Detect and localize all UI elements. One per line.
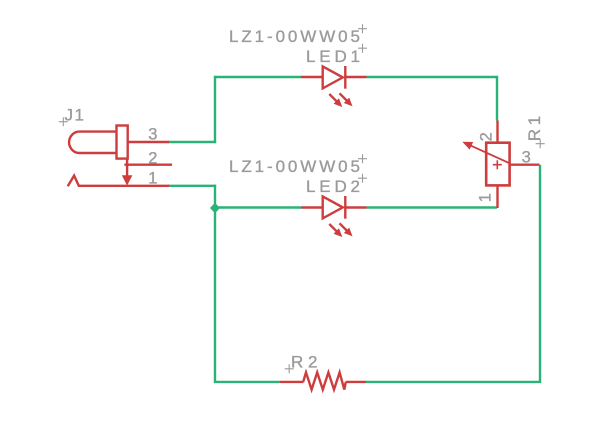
wire net N$3 right vertical to R1 pin 3 — [539, 165, 541, 383]
LED2 name origin cross — [358, 174, 367, 183]
LED2 anode lead — [301, 206, 323, 208]
wire net N$2 right of LED2 to R1 pin 1 — [367, 206, 498, 208]
svg-text:1: 1 — [476, 193, 494, 202]
trimpot R1 pin 2 stub — [496, 121, 498, 143]
wire net GND left of LED2 — [215, 206, 301, 208]
connector J1 pin 3 lead — [128, 141, 169, 143]
wire net GND short vertical to junction — [214, 185, 216, 208]
connector J1 origin cross — [59, 117, 68, 126]
LED1 emission arrow a — [329, 94, 342, 107]
wire net GND pin1 horizontal — [168, 185, 216, 187]
connector J1 barrel jack body — [69, 126, 128, 159]
LED1 anode lead — [301, 76, 323, 78]
wire net N$1 pin3 horizontal — [168, 141, 216, 143]
trimpot R1 pin 1 stub — [496, 185, 498, 208]
trimpot R1 center plus — [493, 160, 502, 169]
svg-text:1: 1 — [148, 170, 157, 188]
LED2 cathode bar — [344, 196, 346, 219]
trimpot R1 origin cross — [536, 139, 545, 148]
LED2 emission arrow a — [329, 224, 342, 237]
trimpot R1 wiper arrow — [462, 142, 510, 164]
LED1 name origin cross — [358, 44, 367, 53]
LED2 cathode lead — [345, 206, 366, 208]
LED1 value origin cross — [358, 24, 367, 33]
wire net N$1 top rail left of LED1 — [214, 76, 301, 78]
svg-text:LZ1-00WW05: LZ1-00WW05 — [229, 27, 360, 46]
wire net N$1 right vertical to R1 pin 2 — [496, 76, 498, 121]
resistor R2 origin cross — [285, 364, 294, 373]
wire net GND long left vertical — [214, 208, 216, 384]
LED2 triangle — [323, 196, 343, 218]
svg-text:2: 2 — [148, 150, 157, 168]
LED2 emission arrow b — [340, 223, 353, 236]
wire net N$1 top rail right of LED1 — [367, 76, 499, 78]
connector J1 pin 1 sleeve lead with chevron — [68, 176, 169, 187]
LED1 cathode bar — [344, 66, 346, 89]
trimpot R1 body rectangle — [486, 143, 509, 186]
LED1 cathode lead — [345, 76, 366, 78]
wire net N$3 bottom rail right of R2 — [366, 381, 541, 383]
LED2 value origin cross — [358, 154, 367, 163]
resistor R2 right lead — [346, 381, 366, 383]
junction node at GND/LED2 — [210, 203, 220, 213]
svg-text:LZ1-00WW05: LZ1-00WW05 — [229, 157, 360, 176]
resistor R2 left lead — [280, 381, 304, 383]
connector J1 center-pin arrow — [122, 159, 133, 186]
resistor R2 zigzag — [303, 372, 346, 389]
wire net GND bottom rail left of R2 — [214, 381, 280, 383]
svg-text:2: 2 — [478, 132, 496, 141]
connector J1 pin 2 lead — [124, 163, 172, 165]
LED1 triangle — [323, 66, 343, 88]
LED1 emission arrow b — [340, 93, 353, 106]
wire net N$1 left vertical — [214, 76, 216, 143]
trimpot R1 pin 3 wiper lead — [510, 163, 540, 165]
svg-text:3: 3 — [522, 149, 531, 167]
svg-text:3: 3 — [148, 126, 157, 144]
